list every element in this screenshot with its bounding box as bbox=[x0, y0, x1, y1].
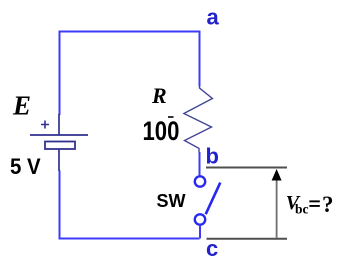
svg-text:bc: bc bbox=[295, 202, 309, 217]
svg-text:b: b bbox=[206, 144, 219, 169]
svg-text:100: 100 bbox=[143, 117, 180, 147]
svg-text:5 V: 5 V bbox=[10, 154, 42, 179]
svg-text:E: E bbox=[12, 91, 31, 121]
svg-text:a: a bbox=[207, 5, 220, 30]
svg-text:?: ? bbox=[322, 192, 334, 217]
svg-text:c: c bbox=[206, 236, 218, 261]
svg-text:R: R bbox=[151, 83, 167, 108]
svg-text:SW: SW bbox=[157, 191, 186, 211]
